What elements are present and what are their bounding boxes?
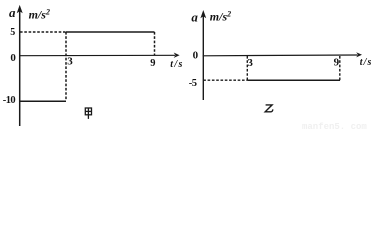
svg-text:9: 9 [150, 58, 155, 69]
svg-text:5: 5 [10, 27, 15, 38]
svg-text:a: a [9, 5, 16, 20]
svg-text:9: 9 [334, 57, 340, 69]
svg-text:t/s: t/s [170, 59, 183, 70]
svg-text:manfen5. com: manfen5. com [302, 122, 367, 130]
svg-text:3: 3 [67, 55, 73, 67]
svg-text:t/s: t/s [360, 57, 371, 68]
svg-text:3: 3 [247, 57, 253, 69]
svg-text:-10: -10 [3, 95, 16, 106]
svg-text:-5: -5 [189, 78, 197, 89]
svg-text:0: 0 [10, 52, 16, 64]
svg-text:a: a [191, 9, 198, 24]
svg-text:0: 0 [193, 49, 199, 61]
